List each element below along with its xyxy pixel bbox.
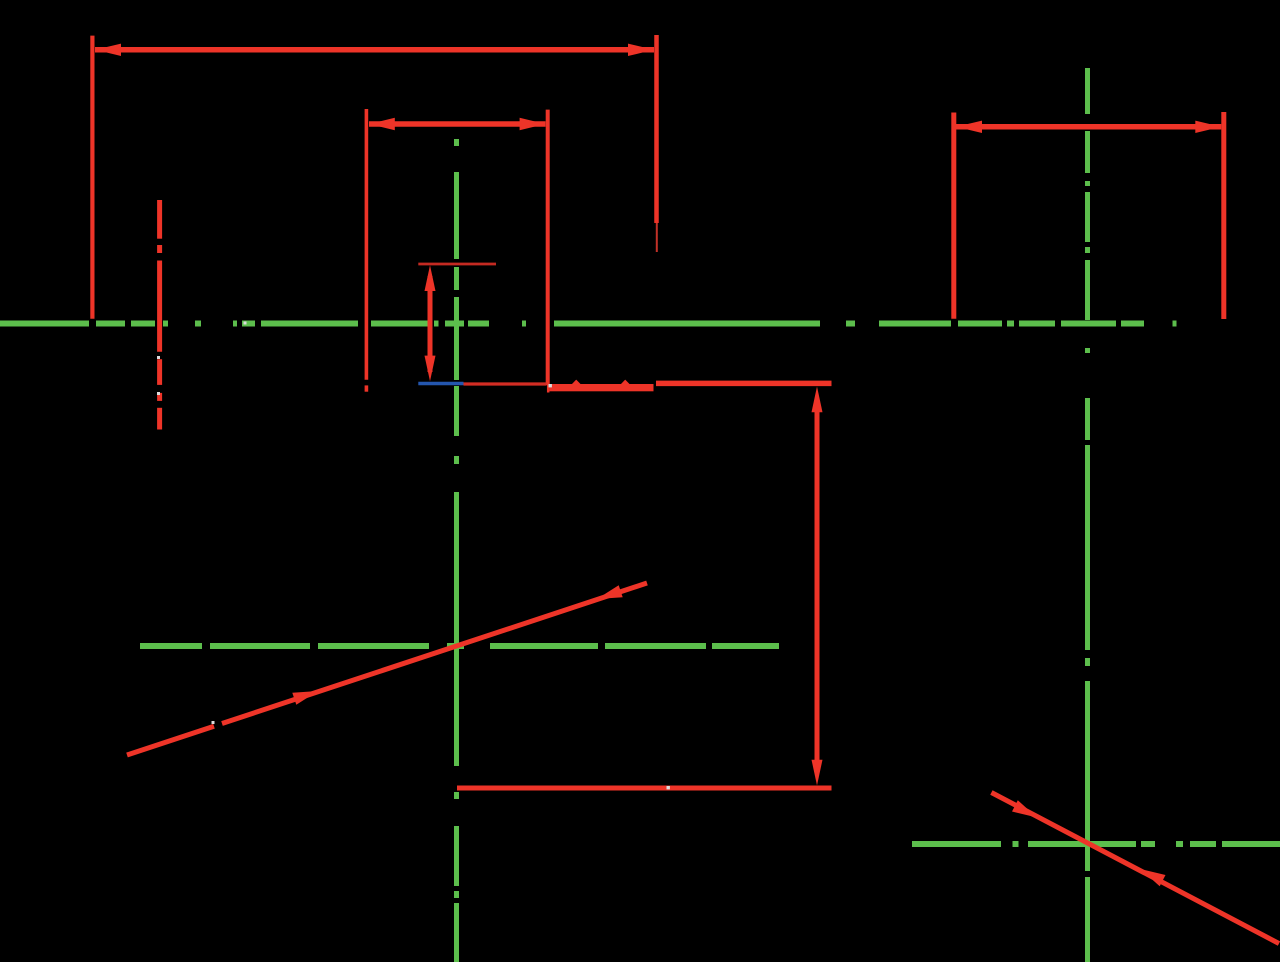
DL2 arrow pointing up-left: [1141, 869, 1166, 886]
dimension D2 right extension line x=547.7: [546, 110, 551, 393]
dimension D4 top reference line y=264 (thin red): [418, 263, 496, 266]
centerline CL5 horizontal y=840 (green dashed): [912, 841, 1280, 847]
dimension D5 text bump 1: [572, 380, 581, 384]
dimension D1 left extension line x=92.4: [90, 36, 94, 319]
DL2 arrow pointing down-right: [1012, 800, 1037, 817]
diagonal line DL2 (lower right, falling): [991, 793, 1279, 944]
dimension D1 left arrow: [95, 44, 121, 56]
dimension D3 line y=126.8: [956, 124, 1221, 130]
dimension D2 line y=124: [369, 121, 546, 127]
dimension D5 up arrow: [812, 387, 823, 413]
centerline CL4 horizontal y=646 (green dashed): [140, 643, 779, 649]
dimension D3 left extension line x=953.8: [951, 113, 956, 319]
diagonal line DL1 (lower left, rising): [127, 583, 647, 755]
datum segment B1 blue y=383.5: [418, 382, 463, 385]
dimension D2 right arrow: [520, 118, 546, 130]
dimension D2 left extension line x=366.4: [365, 109, 369, 392]
dimension D4 down arrow: [425, 356, 436, 382]
feature line F1 vertical red dash-dot x=159.6: [157, 200, 162, 430]
dimension D5 top line y=383.4 thin left part: [464, 382, 547, 385]
centerline CL2 vertical axis x=456 (green dash-dot): [454, 139, 459, 962]
dimension D4 vertical line x=430: [428, 276, 433, 372]
dimension D5 top line y=383.4 main part: [656, 381, 832, 387]
node marker on CL1 x=245: [244, 322, 247, 325]
dimension D5 bottom line y=788: [457, 786, 832, 791]
dimension D3 right arrow: [1195, 121, 1221, 133]
node marker on F1 upper: [157, 356, 160, 359]
dimension D4 up arrow: [425, 265, 436, 291]
dimension D3 right extension line x=1223.8: [1221, 112, 1226, 319]
node marker on D5 bottom line: [667, 786, 670, 789]
centerline CL3 vertical axis x=1087 (green dash-dot): [1085, 68, 1090, 962]
dimension D2 left arrow: [369, 118, 395, 130]
dimension D1 line y=49.8: [95, 47, 654, 53]
dimension D5 vertical line x=817: [815, 400, 820, 772]
dimension D5 down arrow: [812, 760, 823, 786]
dimension D5 text bump 2: [621, 380, 630, 384]
DL1 arrow pointing down-left: [597, 585, 623, 599]
dimension D1 right extension line x=656.5: [654, 35, 659, 223]
node marker at D2/D5 junction: [549, 384, 552, 387]
node marker on F1 lower: [157, 392, 160, 395]
dimension D3 left arrow: [956, 121, 982, 133]
centerline CL1 horizontal main axis y=322 (green dash-dot): [0, 321, 1177, 327]
node marker on DL1: [212, 721, 215, 724]
dimension D1 right arrow: [628, 44, 654, 56]
DL1 arrow pointing up-right: [292, 691, 318, 705]
dimension D5 squeezed text block: [550, 384, 654, 391]
